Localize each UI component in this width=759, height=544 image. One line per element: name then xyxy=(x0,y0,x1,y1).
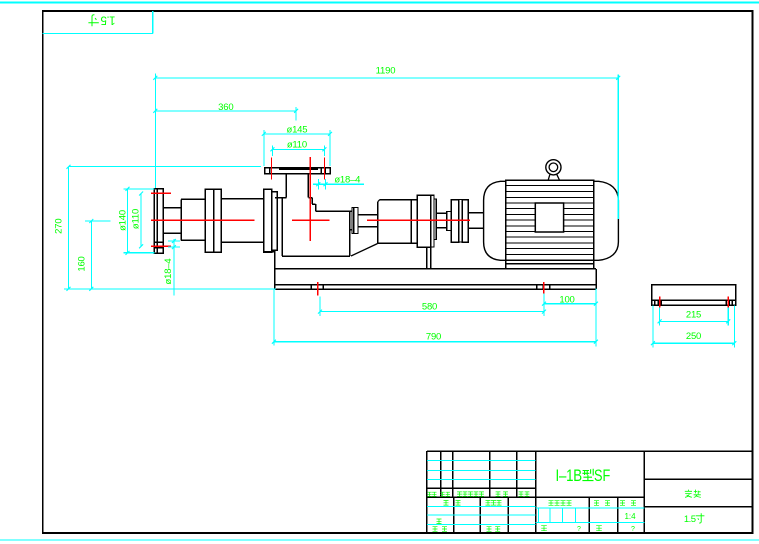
title block tiny CJK glyph strokes xyxy=(427,492,636,531)
suction flange xyxy=(154,189,163,254)
motor right end bell xyxy=(594,181,619,260)
casing block bottom xyxy=(264,251,275,253)
svg-text:ø140: ø140 xyxy=(117,210,128,231)
shaft 2 xyxy=(436,212,447,214)
anchor tab left xyxy=(310,285,312,289)
revision table rows xyxy=(427,460,536,462)
dim 790 line xyxy=(274,341,596,343)
casing shoulder left xyxy=(275,197,286,199)
end view bolt centerlines xyxy=(659,296,661,307)
motor junction box xyxy=(535,203,563,232)
svg-text:1.5: 1.5 xyxy=(684,514,696,525)
lifting eye base xyxy=(548,175,559,180)
coupling half B xyxy=(462,200,468,243)
mid flange pair xyxy=(205,189,213,252)
bearing cylinder 1 face xyxy=(180,199,182,240)
dim phi18-4 left leader xyxy=(173,239,175,296)
top trim line xyxy=(0,2,759,4)
seal box xyxy=(352,208,358,234)
dim 360 line xyxy=(155,110,296,112)
baseplate bottom xyxy=(275,288,596,290)
casing support diagonal xyxy=(351,244,377,256)
motor fin lines xyxy=(506,185,594,187)
dim 580 line xyxy=(320,311,544,313)
svg-text:270: 270 xyxy=(54,219,65,234)
usage cell text xyxy=(685,490,701,498)
bearing housing xyxy=(377,202,379,244)
motor left end bell xyxy=(484,181,506,260)
shaft spacer xyxy=(447,211,451,230)
rear plate 1 xyxy=(417,195,430,247)
casing right wall xyxy=(349,211,351,256)
signature rows xyxy=(427,505,536,507)
seal box stubs xyxy=(350,210,352,212)
main centerline segments xyxy=(151,219,255,221)
dim phi145 line xyxy=(264,133,330,135)
baseplate top xyxy=(275,268,596,270)
scale box text 1.5寸 rotated xyxy=(88,13,115,26)
dim phi110 left line xyxy=(140,194,142,247)
baseplate mid xyxy=(275,284,596,286)
anchor bolt centerlines xyxy=(317,282,319,295)
dim phi110 top line xyxy=(272,148,324,150)
svg-text:100: 100 xyxy=(559,295,574,306)
svg-text:ø145: ø145 xyxy=(286,125,307,136)
svg-text:?: ? xyxy=(631,526,635,533)
svg-text:I–1B: I–1B xyxy=(556,467,582,486)
baseplate end view xyxy=(652,285,736,305)
svg-text:250: 250 xyxy=(686,331,701,342)
rear plate 2 xyxy=(431,195,434,247)
discharge pipe xyxy=(285,174,287,198)
bearing cylinder 2 xyxy=(221,198,264,200)
dim phi18-4 top leader xyxy=(313,183,364,185)
baseplate right edge xyxy=(595,269,597,289)
discharge flange raised face xyxy=(279,168,318,170)
title block xyxy=(427,451,753,533)
discharge bolt centerlines xyxy=(271,158,273,180)
dimension tick terminators xyxy=(67,76,737,345)
bearing cylinder 1 xyxy=(181,198,205,200)
bottom trim line xyxy=(0,539,759,541)
bearing housing chamfer xyxy=(378,200,380,202)
dim 1190 line xyxy=(155,77,618,79)
coupling half A xyxy=(451,200,459,243)
svg-text:790: 790 xyxy=(426,332,441,343)
dim phi140 line xyxy=(127,189,129,253)
svg-text:SF: SF xyxy=(594,466,610,485)
suction bolt centerlines xyxy=(151,192,171,194)
motor shaft xyxy=(468,212,483,214)
anchor tab right xyxy=(536,285,538,289)
dim 270 line xyxy=(68,167,70,289)
dim 215 line xyxy=(660,320,729,322)
rear plate 3 xyxy=(434,199,436,240)
discharge flange xyxy=(265,168,331,174)
svg-text:1:4: 1:4 xyxy=(624,512,636,521)
svg-text:ø18–4: ø18–4 xyxy=(163,259,174,285)
shaft 1 xyxy=(358,214,378,216)
svg-text:?: ? xyxy=(577,526,581,533)
svg-text:360: 360 xyxy=(218,102,233,113)
svg-text:ø110: ø110 xyxy=(131,209,142,229)
coupling mid xyxy=(459,200,462,243)
suction flange bolt hole xyxy=(154,241,163,243)
svg-text:ø110: ø110 xyxy=(287,140,307,151)
dim 160 line xyxy=(90,221,92,289)
casing top xyxy=(316,210,350,212)
casing bottom xyxy=(282,255,350,257)
svg-text:160: 160 xyxy=(77,256,88,271)
casing left block xyxy=(264,189,272,252)
svg-text:1.5: 1.5 xyxy=(101,13,116,25)
support leg xyxy=(426,247,428,269)
casing left wall xyxy=(281,198,283,256)
discharge centerline xyxy=(309,157,311,241)
casing steps right of pipe xyxy=(308,197,312,199)
svg-text:215: 215 xyxy=(686,310,701,321)
svg-text:1190: 1190 xyxy=(376,66,396,77)
motor body xyxy=(506,180,594,260)
lifting eye ring xyxy=(546,160,561,175)
pump bracket / baseplate left edge xyxy=(274,250,276,289)
dim 100 line xyxy=(544,303,596,305)
suction neck xyxy=(163,207,181,209)
motor feet xyxy=(505,260,507,269)
scale box lines top-left xyxy=(43,33,153,35)
stage mark cells xyxy=(536,507,645,509)
svg-text:580: 580 xyxy=(422,301,437,312)
dim 250 line xyxy=(653,342,734,344)
svg-text:ø18–4: ø18–4 xyxy=(334,175,360,186)
